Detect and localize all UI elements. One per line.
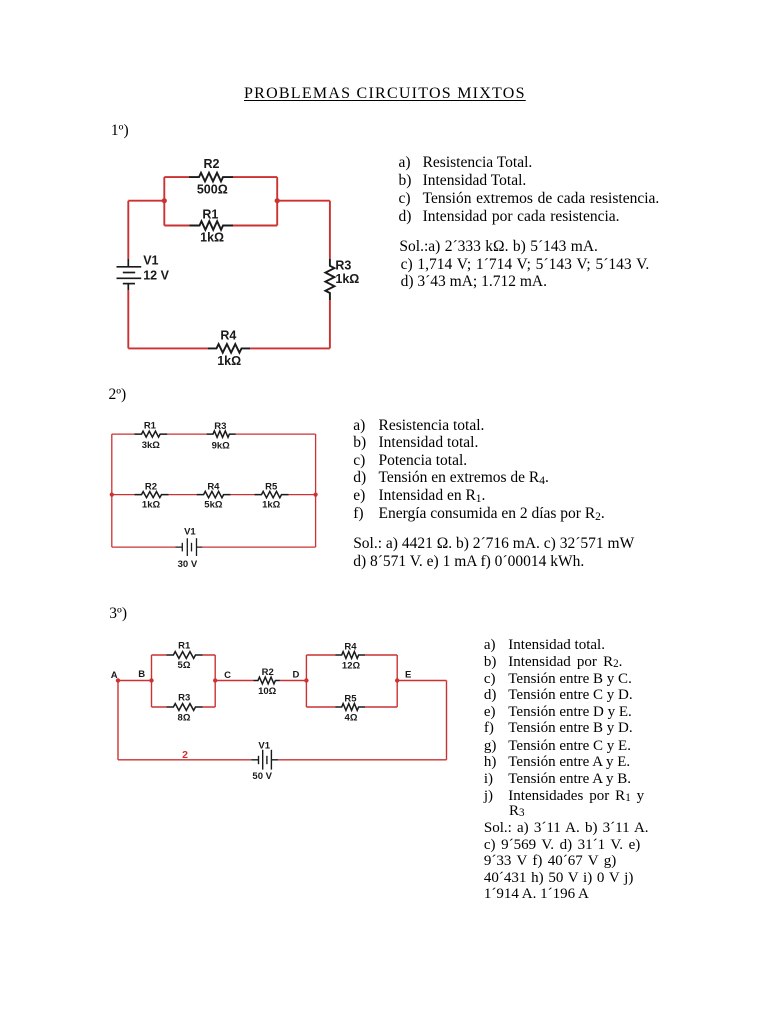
resistor R5 (4Ω) — [335, 704, 365, 711]
problem 1 solution — [399, 239, 598, 255]
svg-text:R1: R1 — [202, 208, 218, 222]
battery V1 (50 V) — [251, 750, 278, 770]
svg-text:R4: R4 — [344, 642, 357, 653]
wire: circuit 3 box1 top branch red — [152, 654, 216, 656]
wire: circuit 3 box1 left edge — [151, 655, 153, 707]
node junction dot D-side — [304, 678, 308, 682]
svg-text:C: C — [224, 670, 231, 681]
resistor R3 (8Ω) — [166, 704, 202, 711]
svg-text:4Ω: 4Ω — [345, 713, 358, 724]
battery V1 (30 V) — [176, 538, 203, 556]
wire: circuit 1 bottom red segments — [128, 347, 330, 349]
resistor R5 (1k) — [255, 491, 289, 497]
wire: circuit 3 box2 right edge — [396, 655, 398, 707]
svg-text:R2: R2 — [262, 667, 274, 678]
wire: circuit 3 bottom red segments — [118, 759, 447, 761]
svg-text:2: 2 — [182, 749, 188, 761]
svg-text:R3: R3 — [335, 259, 351, 273]
svg-text:R4: R4 — [220, 329, 236, 343]
wire: circuit 1 top branch red segments — [164, 176, 277, 178]
resistor R2 (10Ω) — [254, 677, 280, 684]
svg-text:R3: R3 — [178, 693, 190, 704]
svg-text:12Ω: 12Ω — [342, 661, 361, 672]
wire: circuit 1 right rail upper — [329, 201, 331, 259]
node junction dot C-side — [213, 678, 217, 682]
svg-text:R3: R3 — [214, 421, 226, 432]
problem 3 question list — [484, 638, 496, 653]
svg-text:30 V: 30 V — [178, 559, 198, 570]
wire: circuit 1 right horizontal to R3 rail — [277, 200, 330, 202]
battery V1 (12 V) — [117, 259, 142, 290]
node junction dot E-side — [395, 678, 399, 682]
resistor R2 — [189, 173, 233, 182]
svg-text:50 V: 50 V — [252, 771, 272, 782]
svg-text:R2: R2 — [145, 481, 157, 492]
section label 2 — [109, 387, 127, 403]
node junction dot B — [149, 678, 153, 682]
wire: circuit 3 box2 bottom branch red — [306, 706, 397, 708]
wire: circuit 2 top row red segments — [112, 433, 316, 435]
svg-text:R4: R4 — [207, 481, 220, 492]
svg-text:E: E — [405, 670, 411, 681]
svg-text:1kΩ: 1kΩ — [200, 231, 224, 245]
wire: circuit 3 middle C to D red segments — [215, 680, 306, 682]
wire: circuit 2 outer rectangle left edge — [111, 434, 113, 547]
svg-text:A: A — [111, 670, 118, 681]
wire: circuit 3 main horizontal A to box1 — [118, 680, 152, 682]
svg-text:3kΩ: 3kΩ — [142, 440, 161, 451]
wire: circuit 3 box2 top branch red — [306, 654, 397, 656]
svg-text:5Ω: 5Ω — [178, 660, 191, 671]
wire: circuit 3 box1 right edge — [214, 655, 216, 707]
wire: circuit 1 parallel box left edge — [163, 177, 165, 225]
svg-text:12 V: 12 V — [143, 269, 169, 283]
svg-text:V1: V1 — [184, 526, 196, 537]
wire: circuit 3 box1 bottom branch red — [152, 706, 216, 708]
svg-text:1kΩ: 1kΩ — [142, 499, 161, 510]
problem 3 solution — [484, 821, 649, 836]
wire: circuit 3 box2 left edge — [305, 655, 307, 707]
node junction dot left — [162, 198, 167, 203]
wire: circuit 1 right rail lower — [329, 300, 331, 348]
wire: circuit 1 left rail down to battery — [127, 201, 129, 259]
resistor R4 — [208, 344, 250, 353]
node junction dot A — [116, 678, 120, 682]
wire: circuit 1 parallel box right edge — [276, 177, 278, 225]
wire: circuit 3 left edge down from A — [117, 681, 119, 760]
wire: circuit 1 R1 branch red segments — [164, 225, 277, 227]
resistor R3 — [325, 259, 334, 300]
resistor R3 (9k) — [207, 431, 236, 437]
svg-text:9kΩ: 9kΩ — [212, 440, 231, 451]
wire: circuit 1 left rail battery to bottom — [127, 290, 129, 348]
svg-text:R5: R5 — [344, 693, 357, 704]
problem 2 question list — [353, 418, 365, 434]
node junction dot middle-right — [314, 493, 318, 497]
wire: circuit 2 middle row red segments — [112, 494, 316, 496]
resistor R1 (5Ω) — [166, 652, 202, 659]
svg-text:R1: R1 — [178, 641, 191, 652]
svg-text:V1: V1 — [258, 741, 270, 752]
resistor R4 (12Ω) — [335, 652, 365, 659]
svg-text:R2: R2 — [204, 157, 220, 171]
wire: circuit 2 bottom row red segments — [112, 546, 316, 548]
svg-text:1kΩ: 1kΩ — [335, 272, 359, 286]
svg-text:10Ω: 10Ω — [258, 686, 277, 697]
section label 1 — [111, 123, 129, 139]
svg-text:R5: R5 — [265, 481, 278, 492]
wire: circuit 3 E to right corner — [397, 680, 446, 682]
section label 3 — [109, 606, 127, 622]
problem 2 solution — [353, 536, 634, 552]
svg-text:B: B — [138, 669, 145, 680]
title — [244, 86, 526, 102]
resistor R1 (3k) — [134, 431, 167, 437]
wire: circuit 1 main left horizontal — [128, 200, 164, 202]
svg-text:500Ω: 500Ω — [197, 182, 228, 196]
svg-text:1kΩ: 1kΩ — [262, 499, 281, 510]
svg-text:5kΩ: 5kΩ — [204, 499, 223, 510]
resistor R2 (1k) — [135, 492, 169, 498]
svg-text:D: D — [292, 670, 299, 681]
wire: circuit 2 outer rectangle right edge — [315, 434, 317, 547]
svg-text:V1: V1 — [143, 254, 158, 268]
wire: circuit 3 right edge down — [446, 681, 448, 760]
svg-text:1kΩ: 1kΩ — [217, 354, 241, 368]
node junction dot right — [275, 198, 280, 203]
resistor R1 — [190, 221, 234, 230]
problem 1 question list — [399, 155, 411, 171]
node junction dot middle-left — [110, 493, 114, 497]
resistor R4 (5k) — [197, 491, 231, 497]
svg-text:8Ω: 8Ω — [178, 712, 191, 723]
svg-text:R1: R1 — [144, 421, 157, 432]
